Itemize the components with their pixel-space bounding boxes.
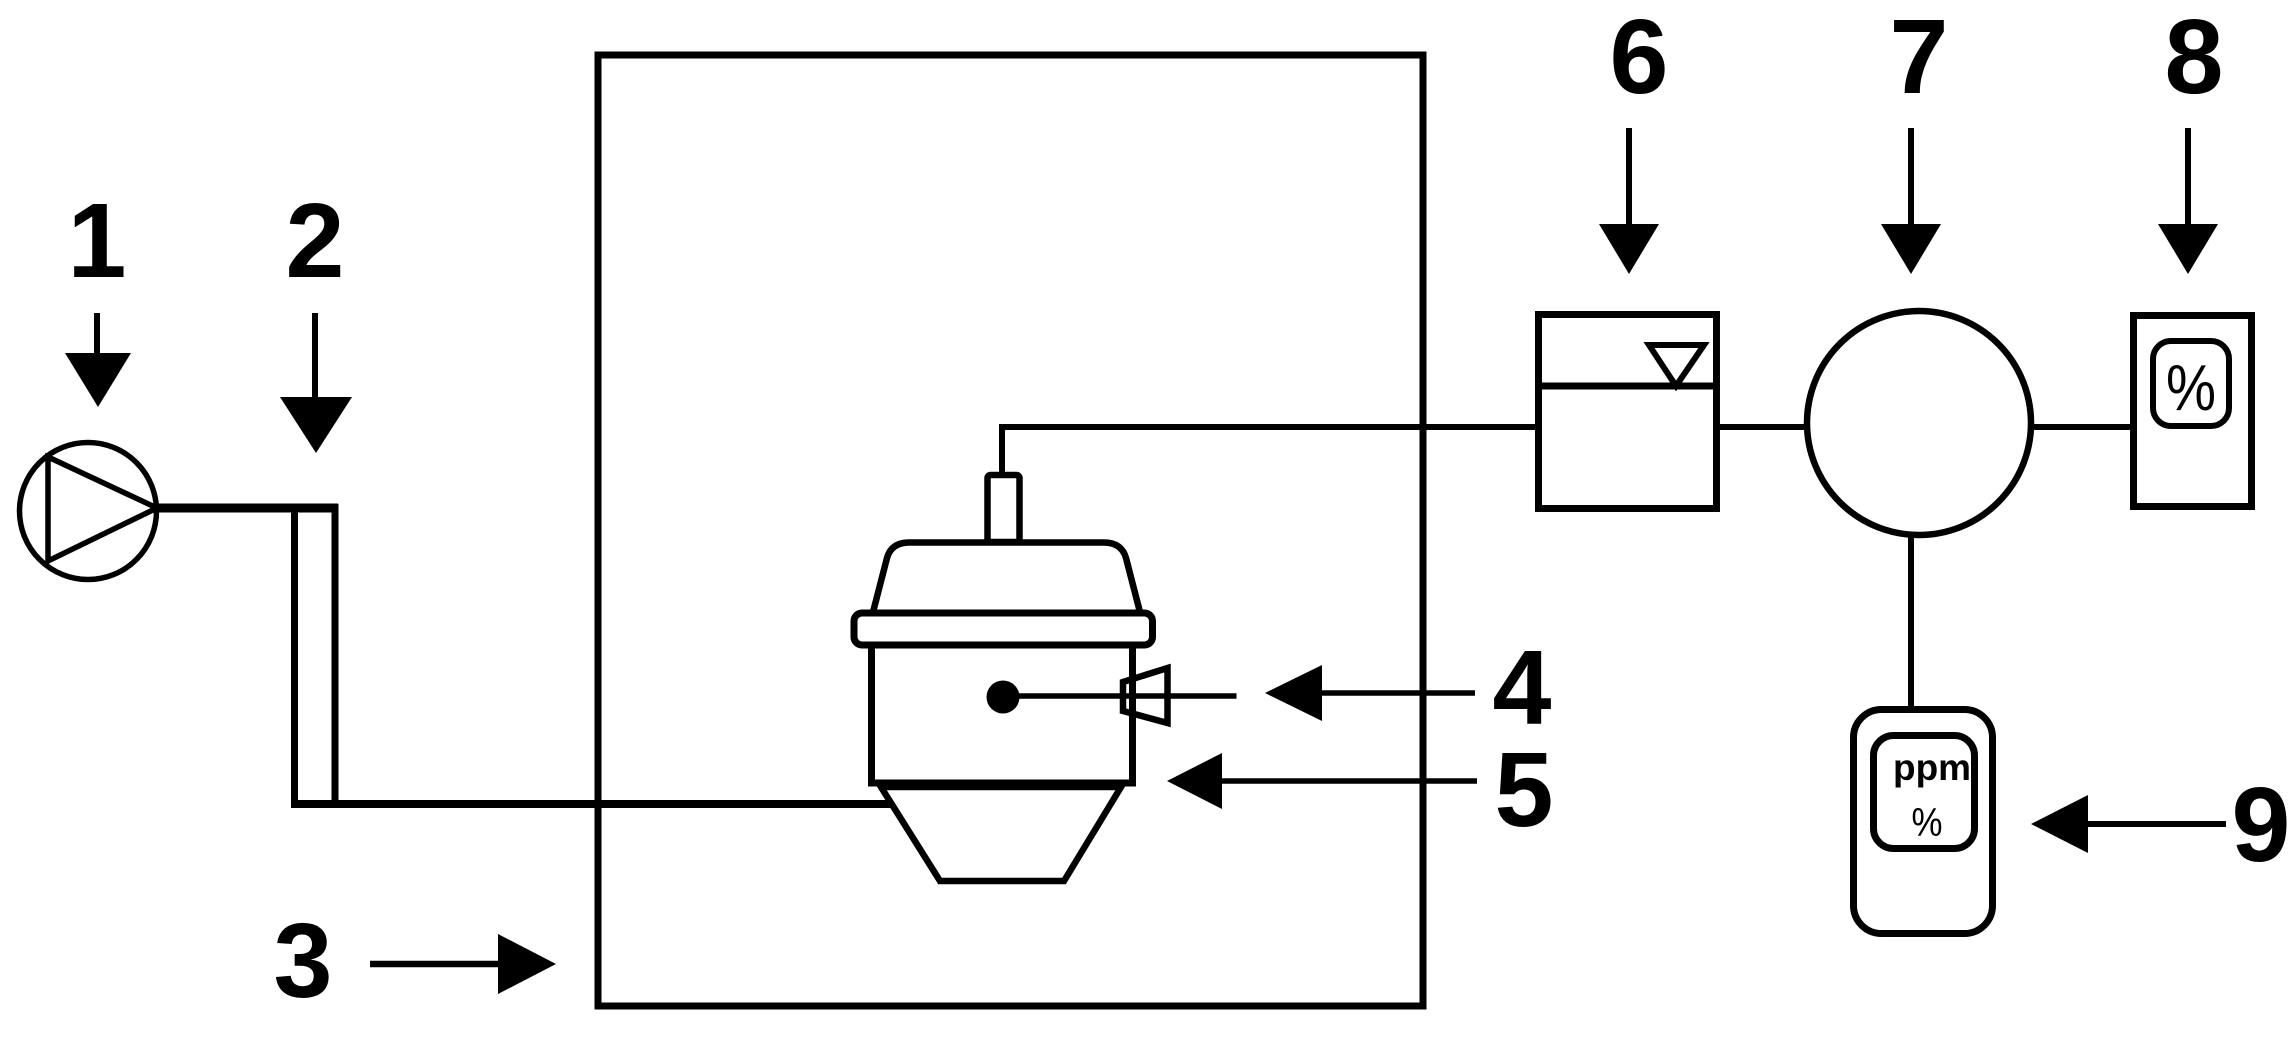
wire pump 7 to sensor 9 xyxy=(1908,534,1914,708)
nozzle 4 xyxy=(1003,668,1237,723)
atomizer funnel bottom xyxy=(881,787,1121,881)
label 8 xyxy=(2165,0,2224,116)
arrow for label 6 xyxy=(1599,128,1659,274)
arrow for label 3 xyxy=(370,934,556,994)
wire atomizer stem to reservoir 6 xyxy=(1002,427,1538,474)
reservoir 6 xyxy=(1535,315,1720,509)
wire reservoir to pump 7 xyxy=(1716,424,1808,430)
svg-text:5: 5 xyxy=(1495,731,1554,849)
svg-text:1: 1 xyxy=(68,182,127,300)
label 1 xyxy=(68,182,127,300)
label 4 xyxy=(1493,629,1552,747)
arrow for label 2 xyxy=(280,313,352,453)
svg-text:3: 3 xyxy=(274,902,333,1020)
svg-text:7: 7 xyxy=(1890,0,1949,116)
pump 1 xyxy=(20,443,158,580)
pump circle 7 xyxy=(1807,311,2031,535)
svg-text:ppm: ppm xyxy=(1893,747,1971,788)
wire pump to capillary xyxy=(156,504,338,513)
arrow for label 9 xyxy=(2031,795,2226,853)
label 6 xyxy=(1610,0,1669,116)
arrow for label 1 xyxy=(65,313,131,407)
label 7 xyxy=(1890,0,1949,116)
sensor 9 outer case xyxy=(1854,710,1993,934)
svg-text:9: 9 xyxy=(2232,766,2291,884)
meter 8 xyxy=(2134,316,2252,507)
arrow for label 8 xyxy=(2158,128,2218,274)
capillary tube 2 xyxy=(295,504,336,806)
svg-text:4: 4 xyxy=(1493,629,1552,747)
droplet dot 4 xyxy=(987,681,1020,714)
atomizer flange xyxy=(854,613,1153,645)
svg-text:2: 2 xyxy=(286,182,345,300)
sensor 9 display xyxy=(1874,736,1975,849)
wire capillary to atomizer (bottom feed line) xyxy=(291,800,891,808)
label 3 xyxy=(274,902,333,1020)
atomizer dome top xyxy=(872,543,1142,619)
label 9 xyxy=(2232,766,2291,884)
atomizer stem xyxy=(988,475,1020,542)
svg-text:%: % xyxy=(2166,351,2216,424)
svg-text:6: 6 xyxy=(1610,0,1669,116)
label 2 xyxy=(286,182,345,300)
wire pump 7 to meter 8 xyxy=(2031,424,2134,430)
svg-text:8: 8 xyxy=(2165,0,2224,116)
arrow for label 4 xyxy=(1265,665,1475,721)
atomizer body 5 xyxy=(872,645,1133,783)
svg-text:%: % xyxy=(1912,801,1943,845)
chamber 3 xyxy=(598,55,1423,1006)
arrow for label 5 xyxy=(1167,753,1477,809)
label 5 xyxy=(1495,731,1554,849)
arrow for label 7 xyxy=(1881,128,1941,274)
